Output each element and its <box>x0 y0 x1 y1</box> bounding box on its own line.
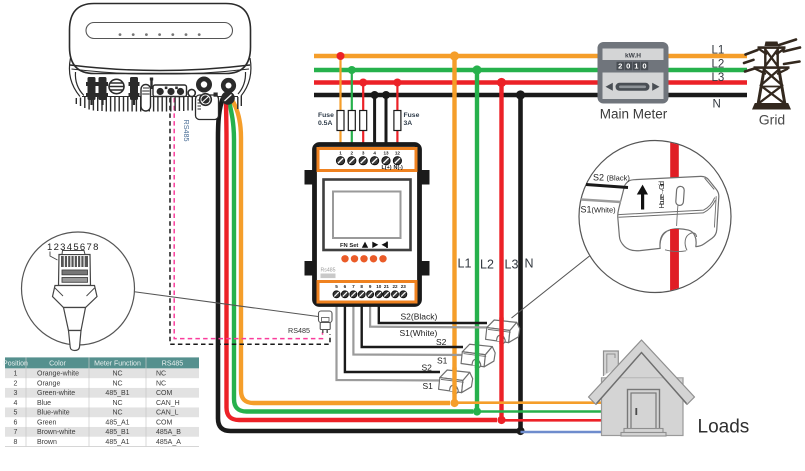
wire L1 grid bus (orange) <box>314 54 747 58</box>
svg-text:CAN_L: CAN_L <box>156 410 179 417</box>
svg-text:NC: NC <box>112 400 122 407</box>
svg-text:5: 5 <box>14 410 18 417</box>
svg-text:Main Meter: Main Meter <box>600 107 668 122</box>
label Rs485 (on meter) <box>321 268 336 274</box>
svg-text:RS485: RS485 <box>182 120 191 142</box>
wire S2 black CT2 (term 8, black) <box>362 303 463 347</box>
svg-text:CAN_H: CAN_H <box>156 400 180 407</box>
label S2(Black) <box>401 312 438 322</box>
svg-text:NC: NC <box>156 371 166 378</box>
svg-text:S1: S1 <box>437 356 448 366</box>
svg-text:4: 4 <box>373 151 376 156</box>
RJ45 pin-1 tick <box>50 252 58 261</box>
house door steps <box>621 429 666 437</box>
svg-text:1: 1 <box>339 151 342 156</box>
grid tower <box>752 42 791 110</box>
detail red conductor lower part <box>670 229 679 295</box>
main meter body <box>598 42 669 104</box>
wire S1 white CT3 (term 5, gray) <box>337 303 451 381</box>
meter DIN clip tabs <box>305 170 430 276</box>
svg-text:Fuse: Fuse <box>404 112 420 119</box>
wire drop to meter terminal 4 (black) <box>371 91 379 157</box>
meter bottom terminal strip <box>318 282 416 303</box>
main meter left arrow <box>606 83 613 91</box>
inverter left wing <box>69 58 84 97</box>
meter LCD <box>333 192 401 239</box>
fuse F4 3A <box>394 111 401 131</box>
label Grid <box>759 112 785 128</box>
svg-text:1: 1 <box>14 371 18 378</box>
main meter lower panel <box>603 73 664 100</box>
main meter drum (pill) <box>616 83 650 91</box>
wire drop to meter terminal 3 (red) <box>359 79 367 158</box>
inverter terminal box with 3 ports <box>153 85 187 97</box>
wire L1 feeder vertical (orange) <box>450 51 459 407</box>
svg-text:10: 10 <box>376 284 382 289</box>
wire drop to meter terminal 2 (green) <box>348 66 356 157</box>
meter display bezel <box>324 180 411 251</box>
svg-text:7: 7 <box>352 284 355 289</box>
svg-text:485_B1: 485_B1 <box>105 429 129 436</box>
svg-text:485A_B: 485A_B <box>156 429 181 436</box>
svg-text:Grid: Grid <box>759 112 785 128</box>
svg-text:8: 8 <box>14 439 18 446</box>
svg-text:L2: L2 <box>712 59 725 71</box>
svg-text:12: 12 <box>395 151 401 156</box>
wire inverter N (black) <box>218 98 517 431</box>
svg-text:N(-): N(-) <box>394 165 403 171</box>
grid power line dashes <box>744 40 800 72</box>
house roof <box>589 340 695 405</box>
svg-text:Position: Position <box>3 360 28 367</box>
svg-text:COM: COM <box>156 419 173 426</box>
svg-text:4: 4 <box>14 400 18 407</box>
svg-text:0.5A: 0.5A <box>318 120 332 127</box>
meter bottom terminal numbers 5 6 7 8 9 10 21 22 23 <box>335 284 406 289</box>
svg-text:L(+): L(+) <box>381 165 391 171</box>
svg-text:L3: L3 <box>712 72 725 84</box>
label S2 (Black) in detail <box>593 173 630 183</box>
main meter digits 2010 <box>617 62 649 71</box>
svg-text:2: 2 <box>618 62 622 71</box>
svg-text:13: 13 <box>383 151 389 156</box>
svg-text:5: 5 <box>335 284 338 289</box>
inverter heat-sink fins <box>76 96 241 112</box>
callout line RJ45 circle to RS485 plug <box>133 292 319 317</box>
house door <box>628 390 660 430</box>
svg-text:S1(White): S1(White) <box>581 205 617 215</box>
inverter AC connector (big, right) <box>221 78 236 105</box>
meter top terminal screws <box>336 157 401 165</box>
callout line CT1 to detail circle <box>512 256 590 318</box>
meter top terminal numbers 1 2 3 4 13 12 <box>339 151 400 156</box>
inverter DC connector pair 2 <box>97 77 108 100</box>
inverter DC connector pins <box>92 100 135 105</box>
svg-text:L2: L2 <box>480 258 494 272</box>
wire L2 feeder vertical (green) <box>472 65 481 415</box>
svg-text:S1(White): S1(White) <box>400 328 438 338</box>
inverter antenna capsule <box>141 85 151 112</box>
svg-text:485_B1: 485_B1 <box>105 390 129 397</box>
svg-text:Meter Function: Meter Function <box>94 360 141 367</box>
wire drop to meter terminal 1 (orange) <box>337 52 345 157</box>
label L(+) N(-) <box>381 165 403 171</box>
meter LEDs <box>341 255 386 262</box>
meter bottom terminal screws <box>333 291 407 298</box>
inverter body seam <box>70 65 250 74</box>
inverter front face <box>70 4 251 74</box>
svg-text:0: 0 <box>626 62 630 71</box>
svg-text:0: 0 <box>642 62 646 71</box>
fuse F2 0.5A <box>348 111 355 131</box>
inverter DC connector 3 <box>129 77 140 100</box>
wire inverter L3 (red) <box>226 100 497 420</box>
svg-text:L1: L1 <box>712 45 725 57</box>
svg-text:Color: Color <box>49 360 66 367</box>
svg-text:3A: 3A <box>404 120 413 127</box>
detail red conductor <box>670 138 679 295</box>
table row fills <box>5 368 199 436</box>
svg-text:S2 (Black): S2 (Black) <box>593 173 630 183</box>
wire to loads N thin (blue) <box>521 431 602 434</box>
svg-text:485A_A: 485A_A <box>156 439 181 446</box>
inverter small rod <box>150 78 153 90</box>
svg-text:2: 2 <box>14 380 18 387</box>
meter small gray slot <box>321 274 336 279</box>
RJ45 circle <box>22 232 135 345</box>
svg-text:NC: NC <box>112 380 122 387</box>
RS485 plug at meter <box>319 311 333 333</box>
wire drop to meter terminal 13 (black) <box>382 91 390 157</box>
house chimney <box>604 351 619 376</box>
svg-text:485_A1: 485_A1 <box>105 439 129 446</box>
meter top terminal strip <box>318 149 416 171</box>
label L2 (top bus) <box>712 59 725 71</box>
label House-Grid (rotated) <box>657 181 666 209</box>
label FN Set <box>340 243 358 249</box>
svg-text:2: 2 <box>351 151 354 156</box>
detail circle <box>579 141 731 293</box>
svg-text:Blue: Blue <box>37 400 51 407</box>
svg-text:23: 23 <box>401 284 407 289</box>
wire S2 black CT1 (term 10, black) <box>379 303 487 323</box>
svg-text:6: 6 <box>14 419 18 426</box>
svg-text:NC: NC <box>156 380 166 387</box>
label RS485 (rotated, at inverter) <box>182 120 191 142</box>
inverter small square port <box>214 93 218 97</box>
svg-text:S2(Black): S2(Black) <box>401 312 438 322</box>
svg-text:N: N <box>525 257 534 271</box>
wire N feeder vertical (black) <box>516 90 525 435</box>
inverter underside panel <box>84 75 237 97</box>
CT clamp CT2 on L2 (green) <box>461 344 495 367</box>
label L1 <box>458 257 472 271</box>
svg-text:RS485: RS485 <box>162 360 184 367</box>
svg-text:S2: S2 <box>422 363 433 373</box>
svg-text:9: 9 <box>369 284 372 289</box>
wire N grid bus (black) <box>314 93 747 98</box>
label Fuse 3A <box>404 112 420 127</box>
wire S2 black in detail <box>586 185 628 188</box>
CT clamp CT1 on L3 (red) <box>486 320 520 343</box>
svg-text:L1: L1 <box>458 257 472 271</box>
fuse F1 0.5A <box>337 111 344 131</box>
svg-text:House→Grid: House→Grid <box>657 181 666 209</box>
label S1 (CT2) <box>437 356 448 366</box>
label S1(White) <box>400 328 438 338</box>
label L1 (top bus) <box>712 45 725 57</box>
svg-text:Green: Green <box>37 419 57 426</box>
svg-text:Loads: Loads <box>698 417 750 438</box>
svg-text:485_A1: 485_A1 <box>105 419 129 426</box>
label Fuse 0.5A <box>318 112 334 127</box>
svg-text:Orange-white: Orange-white <box>37 371 79 378</box>
inverter right wing <box>238 58 251 96</box>
svg-text:S2: S2 <box>436 337 447 347</box>
detail CT clamp body <box>618 176 719 250</box>
RJ45 connector <box>53 251 98 351</box>
svg-text:Fuse: Fuse <box>318 112 334 119</box>
svg-text:NC: NC <box>112 410 122 417</box>
label N (top bus) <box>713 99 721 111</box>
wire L2 grid bus (green) <box>314 68 747 72</box>
inverter vent knob <box>109 79 124 93</box>
meter buttons (triangles) <box>362 242 388 248</box>
wire inverter L2 (green) <box>229 101 473 412</box>
svg-text:7: 7 <box>14 429 18 436</box>
wire S1 white CT2 (term 7, gray) <box>353 303 474 355</box>
svg-text:Blue-white: Blue-white <box>37 410 70 417</box>
svg-text:3: 3 <box>14 390 18 397</box>
wire to loads L2 thin (green) <box>477 410 602 413</box>
svg-text:8: 8 <box>360 284 363 289</box>
inverter DC connector pair 1 <box>86 77 97 100</box>
detail direction arrow <box>637 185 648 210</box>
meter body outline <box>315 145 420 305</box>
label S2 (CT2) <box>436 337 447 347</box>
inverter pill dots <box>119 33 201 36</box>
wire to loads L1 thin (orange) <box>455 401 602 404</box>
svg-text:NC: NC <box>112 371 122 378</box>
svg-text:Brown-white: Brown-white <box>37 429 76 436</box>
table header <box>3 357 199 368</box>
wire L2 through CT2 (overlay) <box>475 342 479 369</box>
label S2 (CT3) <box>422 363 433 373</box>
label L2 <box>480 258 494 272</box>
CT clamp CT3 on L1 (orange) <box>439 370 473 393</box>
svg-text:FN Set: FN Set <box>340 243 358 249</box>
wire L3 feeder vertical (red) <box>497 78 506 424</box>
wire S2 black CT3 (term 6, black) <box>345 303 440 372</box>
fuse F3 0.5A <box>360 111 367 131</box>
svg-text:RS485: RS485 <box>288 326 310 335</box>
label L3 (top bus) <box>712 72 725 84</box>
detail notch inner curl <box>660 232 697 252</box>
main meter top window kW.H <box>603 49 664 61</box>
inverter COM connector (big, left) <box>196 77 219 120</box>
svg-text:Orange: Orange <box>37 380 60 387</box>
wire L3 grid bus (red) <box>314 80 747 84</box>
svg-text:S1: S1 <box>423 381 434 391</box>
inverter small round port <box>188 89 195 96</box>
svg-text:kW.H: kW.H <box>625 52 641 59</box>
wire L3 through CT1 (overlay) <box>499 318 503 345</box>
inverter panel bottom edge <box>82 96 238 98</box>
label Main Meter <box>600 107 668 122</box>
svg-text:Rs485: Rs485 <box>321 268 336 274</box>
inverter display pill <box>86 23 233 39</box>
label 12345678 <box>47 242 100 253</box>
svg-text:L3: L3 <box>505 258 519 272</box>
table body text <box>14 371 182 446</box>
svg-text:N: N <box>713 99 721 111</box>
wire RS485 dashed pink <box>174 98 322 339</box>
wire L1 through CT3 (overlay) <box>452 368 456 395</box>
svg-text:3: 3 <box>362 151 365 156</box>
label S1 (CT3) <box>423 381 434 391</box>
main meter right arrow <box>652 83 659 91</box>
table grid lines <box>5 357 199 446</box>
svg-text:6: 6 <box>344 284 347 289</box>
wire RS485 dashed black <box>170 98 330 344</box>
label RS485 (at plug) <box>288 326 310 335</box>
label N <box>525 257 534 271</box>
wire drop to meter terminal 12 (red, via fuse 3A) <box>393 79 401 158</box>
wire inverter L1 (orange) down and right to junction <box>232 100 450 403</box>
wire S1 white CT1 (term 9, gray) <box>370 303 498 328</box>
wire to loads L3 thin (red) <box>502 419 602 422</box>
svg-text:COM: COM <box>156 390 173 397</box>
label Loads <box>698 417 750 438</box>
svg-text:Brown: Brown <box>37 439 57 446</box>
svg-text:Green-white: Green-white <box>37 390 75 397</box>
wire S1 white in detail <box>581 200 621 203</box>
svg-text:21: 21 <box>384 284 390 289</box>
svg-text:22: 22 <box>392 284 398 289</box>
house walls <box>602 353 684 436</box>
label L3 <box>505 258 519 272</box>
label S1 (White) in detail <box>581 205 617 215</box>
